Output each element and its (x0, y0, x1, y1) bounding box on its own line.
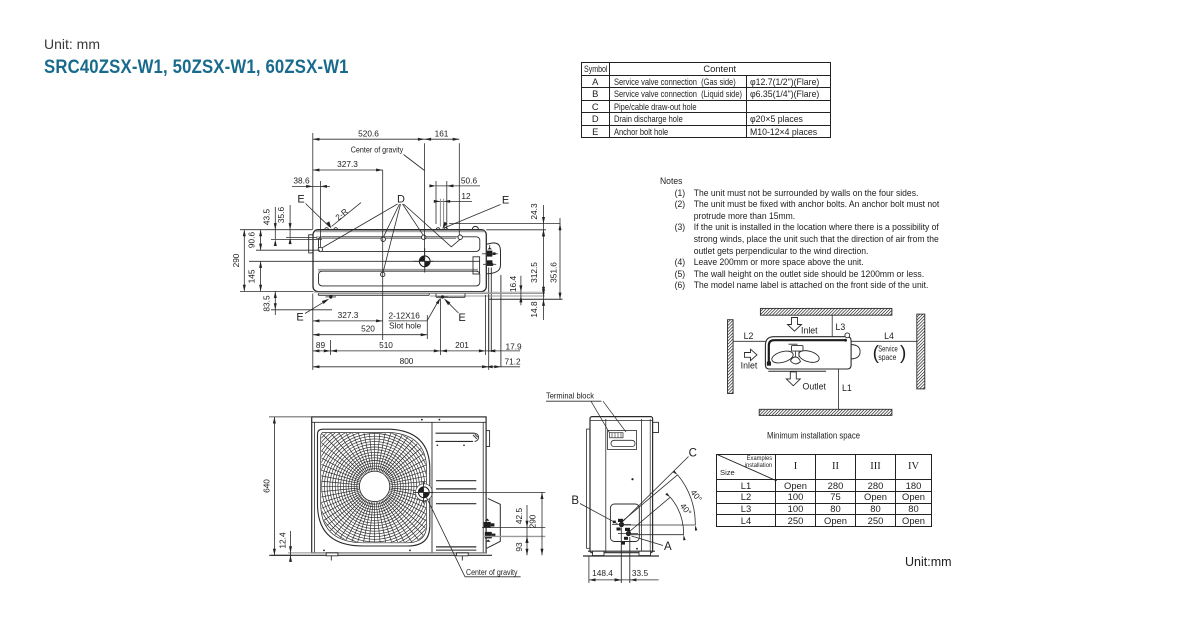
label E top-left with leader (297, 194, 333, 230)
svg-text:33.5: 33.5 (632, 568, 649, 578)
svg-text:Center of gravity: Center of gravity (466, 567, 518, 577)
dimension 93 (514, 536, 529, 555)
valve ref lines (482, 526, 545, 528)
valve cover (right side of top view) (486, 243, 500, 274)
outlet arrow (786, 372, 800, 386)
svg-text:Minimum installation space: Minimum installation space (767, 430, 860, 440)
svg-text:161: 161 (435, 129, 449, 139)
svg-text:24.3: 24.3 (529, 203, 539, 220)
left small tab (309, 235, 313, 253)
svg-text:D: D (397, 193, 405, 205)
svg-text:327.3: 327.3 (338, 310, 359, 320)
svg-text:520.6: 520.6 (358, 129, 379, 139)
svg-text:327.3: 327.3 (337, 159, 358, 169)
svg-text:Inlet: Inlet (741, 360, 758, 370)
inlet arrow left (745, 349, 758, 360)
svg-text:Outlet: Outlet (803, 381, 827, 391)
svg-text:L1: L1 (842, 383, 852, 393)
L1 line (839, 369, 852, 409)
top view body outline (313, 230, 486, 292)
pipes below valve area (488, 268, 490, 353)
heat exchanger heavy line (769, 340, 845, 362)
center of gravity symbol (front view) (414, 482, 434, 504)
svg-text:520: 520 (361, 324, 375, 334)
valve cover bulge (front view) (487, 498, 501, 548)
svg-text:50.6: 50.6 (461, 175, 478, 185)
unit label (44, 36, 100, 52)
svg-text:Terminal block: Terminal block (546, 390, 595, 400)
svg-text:71.2: 71.2 (505, 357, 522, 367)
right bulge (851, 345, 860, 359)
side view: outdoor unit (583, 417, 659, 583)
label: Center of gravity (top view) (351, 145, 425, 170)
unit base line (768, 370, 826, 372)
svg-text:E: E (297, 194, 304, 206)
svg-text:89: 89 (316, 340, 326, 350)
CoG white halo (416, 484, 433, 501)
fan grille frame (318, 429, 430, 546)
left side dimensions of top view (231, 205, 332, 315)
label A with leader (632, 536, 672, 553)
louver slot top-right (436, 433, 479, 446)
valves (side view) (613, 519, 631, 545)
dimension 148.4 and 33.5 (589, 557, 659, 584)
terminal block area (608, 431, 637, 450)
front view outline (312, 417, 486, 553)
svg-text:Center of gravity: Center of gravity (351, 145, 404, 154)
svg-text:12.4: 12.4 (277, 532, 287, 549)
heat exchanger gray line middle (318, 268, 478, 270)
side body (590, 417, 653, 553)
svg-text:E: E (458, 312, 465, 324)
label 2-12X16 Slot hole (389, 297, 442, 330)
anchor slot left (top edge) (325, 228, 338, 230)
CoG reference line (429, 491, 545, 493)
svg-text:Inlet: Inlet (801, 325, 818, 335)
svg-text:E: E (502, 194, 509, 206)
svg-text:510: 510 (379, 340, 393, 350)
drain holes D (5 places) (318, 247, 322, 251)
front view base (288, 552, 486, 554)
dimension 42.5 (514, 505, 529, 543)
svg-text:14.8: 14.8 (529, 301, 539, 318)
handle on top edge (472, 226, 478, 229)
svg-text:Slot hole: Slot hole (389, 320, 422, 330)
front view: outdoor unit (271, 402, 546, 570)
label Terminal block (546, 390, 626, 433)
label E top-right with leader (441, 194, 509, 230)
model title (44, 57, 349, 79)
label D with leaders to drain holes (322, 193, 460, 272)
svg-text:C: C (689, 447, 697, 459)
svg-text:290: 290 (231, 253, 241, 267)
anchor slot right (top edge) (436, 228, 447, 230)
svg-text:B: B (571, 495, 579, 507)
heat exchanger gray line top (316, 230, 485, 232)
svg-text:351.6: 351.6 (549, 262, 559, 283)
notes (660, 175, 939, 291)
label B with leader (571, 495, 617, 524)
svg-text:A: A (664, 541, 672, 553)
fan blades (770, 344, 820, 365)
louvers right panel (436, 480, 476, 482)
svg-text:12: 12 (461, 191, 471, 201)
bottom dimensions of top view (313, 294, 522, 371)
svg-text:38.6: 38.6 (293, 176, 310, 186)
svg-text:): ) (900, 343, 906, 364)
inner panel rect lower (319, 271, 480, 286)
svg-text:40°: 40° (689, 488, 705, 504)
L4 line (851, 331, 917, 341)
label C with leader (623, 447, 697, 521)
top view: outdoor unit plan (249, 226, 563, 367)
compressor rect right (473, 257, 480, 274)
label E bottom-right with leader (443, 297, 466, 324)
right tab (653, 422, 659, 432)
label Center of gravity (front) (427, 498, 521, 578)
svg-text:16.4: 16.4 (508, 276, 518, 293)
svg-text:E: E (296, 311, 303, 323)
label E bottom-left with leader (296, 297, 330, 323)
svg-text:2-12X16: 2-12X16 (389, 310, 421, 320)
svg-text:83.5: 83.5 (261, 295, 271, 312)
center line through body (249, 260, 480, 262)
dimension 38.6 (292, 176, 330, 247)
dimension 12.4 (277, 531, 292, 562)
svg-text:space: space (878, 353, 896, 362)
dimension 12 (434, 191, 472, 227)
inlet arrow top (788, 318, 802, 332)
svg-text:800: 800 (400, 356, 414, 366)
dimension 520.6 and 161 (top) (313, 129, 460, 256)
svg-text:42.5: 42.5 (514, 508, 524, 525)
installation size table (716, 454, 932, 527)
L2 line (733, 331, 765, 341)
unit mm bottom right (905, 555, 952, 569)
L3 line (832, 315, 845, 337)
svg-text:90.6: 90.6 (247, 232, 257, 249)
svg-text:93: 93 (514, 542, 524, 552)
service panel (610, 504, 639, 542)
svg-text:17.9: 17.9 (506, 341, 523, 351)
label 2-R with leader (332, 203, 362, 227)
side base (588, 550, 655, 552)
inner panel lines (605, 419, 607, 552)
inner panel rect upper (319, 237, 480, 252)
dimension 640 (261, 417, 311, 555)
svg-text:L3: L3 (836, 322, 846, 332)
dimension 50.6 (429, 175, 480, 229)
dimension 290 (front) (527, 492, 543, 555)
panel divider (431, 422, 433, 553)
symbol content table (581, 62, 831, 138)
svg-text:290: 290 (527, 514, 537, 528)
minimum installation space diagram (728, 306, 925, 440)
svg-text:L2: L2 (744, 331, 754, 341)
service valves (top view) (482, 245, 498, 266)
unit outline (plan) (765, 337, 851, 369)
svg-text:145: 145 (247, 269, 257, 283)
center of gravity symbol (top view) (414, 248, 434, 273)
svg-text:640: 640 (261, 479, 271, 493)
dimension 327.3 (top) (313, 159, 383, 340)
svg-text:43.5: 43.5 (261, 209, 271, 226)
svg-text:35.6: 35.6 (276, 207, 286, 224)
svg-text:148.4: 148.4 (592, 568, 613, 578)
angle fan lower 40deg (627, 493, 694, 541)
svg-text:2-R: 2-R (334, 207, 350, 222)
left fin guard (587, 429, 590, 548)
right side dimensions of top view (449, 203, 562, 320)
service valves (front view) (484, 519, 496, 542)
angle fan upper 40deg (620, 470, 705, 530)
svg-text:201: 201 (455, 340, 469, 350)
right edge tab (front view) (486, 431, 490, 447)
svg-text:312.5: 312.5 (529, 262, 539, 283)
svg-text:L4: L4 (884, 331, 894, 341)
base legs (top view bottom) (314, 291, 545, 293)
anchor bolts on legs (326, 295, 448, 298)
